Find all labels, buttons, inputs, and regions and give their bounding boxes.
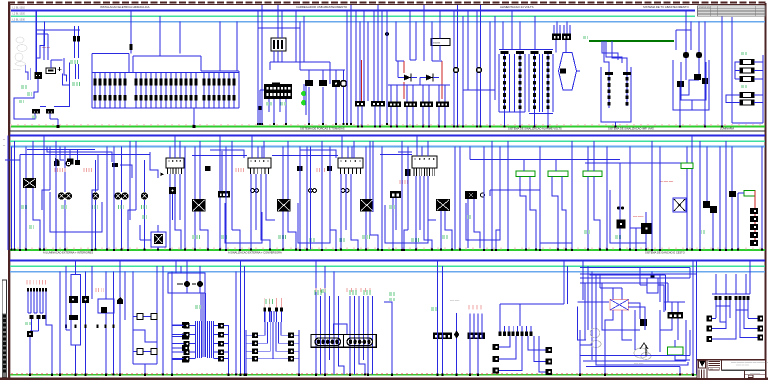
svg-text:xxxx xxxx xxx: xxxx xxxx xxx	[30, 377, 44, 379]
svg-text:xxxxxx: xxxxxx	[433, 42, 441, 45]
svg-text:SISTEMA DE GANCHO E CESTO: SISTEMA DE GANCHO E CESTO	[645, 251, 685, 255]
svg-text:SISTEMA DE FORCAS E TOMADAS: SISTEMA DE FORCAS E TOMADAS	[300, 127, 345, 131]
svg-text:SISTEMA DE TC ABASTECIMENTO: SISTEMA DE TC ABASTECIMENTO	[643, 5, 690, 9]
svg-text:SISTEMA DE SINALIZACAO IMP. VI: SISTEMA DE SINALIZACAO IMP. VIAS	[608, 127, 654, 131]
svg-text:INSTALACAO ELETRICA HIDRAULICA: INSTALACAO ELETRICA HIDRAULICA	[100, 5, 150, 9]
svg-text:xxxxx xxx xxxx: xxxxx xxx xxxx	[736, 365, 749, 367]
svg-text:SISTEMA DE SINALIZACAO ALARME: SISTEMA DE SINALIZACAO ALARME VOLTS	[508, 127, 562, 131]
svg-text:A ILUMINACAO EXTERNA + INTERIO: A ILUMINACAO EXTERNA + INTERIORES	[43, 251, 93, 255]
svg-text:CARREGADOR USB ABASTECIMENTO: CARREGADOR USB ABASTECIMENTO	[296, 5, 348, 9]
svg-text:A SINALIZACAO EXTERNA + CONVER: A SINALIZACAO EXTERNA + CONVERSORA	[228, 251, 282, 255]
svg-text:xxxx xxx: xxxx xxx	[42, 47, 51, 49]
svg-text:xxx xxxx: xxx xxxx	[13, 69, 21, 71]
svg-text:xxx: xxx	[710, 369, 713, 371]
svg-text:xxx xxxx xxxx: xxx xxxx xxxx	[660, 181, 674, 183]
svg-text:xxxx xxxxx: xxxx xxxxx	[633, 216, 644, 218]
svg-text:xxxx xxxx: xxxx xxxx	[450, 300, 460, 302]
svg-text:ALIMENTACAO 24 VOLTS: ALIMENTACAO 24 VOLTS	[500, 5, 534, 9]
svg-text:xxxx xxxx: xxxx xxxx	[90, 377, 100, 379]
svg-text:L2 BL-1020: L2 BL-1020	[13, 13, 26, 16]
svg-text:XXXXX XX: XXXXX XX	[699, 7, 710, 9]
svg-text:L1 BL-1010: L1 BL-1010	[13, 6, 26, 9]
